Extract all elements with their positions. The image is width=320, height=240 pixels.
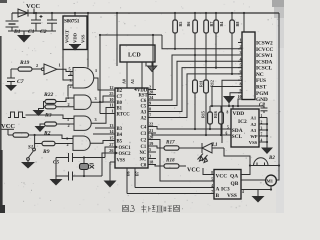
ground under S1 — [21, 162, 35, 169]
wire IC4 GND — [238, 99, 242, 106]
node VCC junction — [33, 12, 35, 14]
svg-text:19: 19 — [149, 141, 153, 146]
svg-text:18: 18 — [149, 160, 153, 165]
svg-text:1: 1 — [59, 63, 61, 68]
wire R2 left — [40, 124, 45, 126]
capacitor C8 — [259, 103, 268, 113]
LCD module — [120, 45, 155, 62]
wire IC2 VDD stub — [232, 106, 234, 109]
svg-text:R17: R17 — [166, 140, 175, 146]
svg-text:ICSW1: ICSW1 — [256, 53, 273, 59]
svg-text:C6: C6 — [141, 99, 147, 104]
wire R3 right to gate G2 — [56, 106, 74, 108]
svg-text:C0: C0 — [141, 164, 147, 169]
crystal Y1 — [80, 156, 95, 177]
svg-text:7: 7 — [240, 75, 242, 80]
wire row2 net — [162, 35, 242, 49]
svg-text:S80751: S80751 — [64, 19, 80, 25]
svg-text:2: 2 — [261, 121, 263, 125]
svg-text:VDD: VDD — [73, 32, 78, 43]
scan right margin — [276, 0, 284, 213]
svg-text:C1: C1 — [141, 145, 147, 150]
svg-text:10: 10 — [238, 94, 242, 99]
svg-text:C7: C7 — [117, 95, 123, 100]
svg-text:22: 22 — [149, 122, 153, 127]
svg-text:2: 2 — [68, 102, 70, 107]
wire row9 PGM — [230, 93, 242, 96]
svg-text:A2: A2 — [251, 122, 257, 127]
resistor R22 — [43, 92, 56, 104]
svg-text:9: 9 — [149, 101, 151, 106]
svg-text:RTCC: RTCC — [117, 113, 131, 118]
IC3 pin numbers — [211, 171, 213, 194]
svg-text:R2: R2 — [43, 131, 51, 137]
wire IC2 ground rail — [266, 118, 268, 148]
svg-text:VCC: VCC — [216, 174, 228, 180]
svg-text:B1: B1 — [13, 29, 21, 35]
svg-text:B: B — [216, 193, 220, 199]
svg-text:4: 4 — [240, 56, 242, 61]
svg-text:1: 1 — [67, 117, 69, 122]
svg-text:5: 5 — [240, 63, 242, 68]
node C2 top — [51, 12, 53, 14]
svg-text:4: 4 — [261, 139, 263, 143]
svg-text:R9: R9 — [42, 149, 50, 155]
svg-text:C4: C4 — [141, 126, 147, 131]
node C1 top — [35, 12, 37, 14]
svg-text:2: 2 — [70, 84, 72, 89]
wire mid bus w2 — [100, 34, 162, 36]
wire chip top feed from bus — [243, 13, 245, 32]
wire gate G1 out to MCU pin B2 — [94, 78, 115, 90]
svg-text:PGM: PGM — [256, 91, 268, 97]
svg-text:IC3: IC3 — [221, 187, 230, 193]
svg-text:B1: B1 — [117, 107, 123, 112]
svg-text:A1: A1 — [130, 79, 135, 84]
wire motor bottom — [270, 186, 272, 190]
inverter U1A — [36, 63, 61, 75]
svg-text:15: 15 — [109, 136, 113, 141]
IC2 right pin numbers — [261, 114, 263, 143]
wire long vertical x100 from mid bus — [99, 35, 101, 114]
svg-text:ICSCL: ICSCL — [256, 66, 272, 72]
svg-text:1: 1 — [67, 95, 69, 100]
wire right edge supply drop to motor — [276, 13, 279, 180]
svg-text:B7: B7 — [135, 171, 140, 176]
signal source square wave — [8, 112, 26, 118]
svg-text:R22: R22 — [43, 92, 54, 98]
capacitor C6 — [52, 172, 102, 185]
svg-text:OSC2: OSC2 — [119, 152, 132, 157]
capacitor C1 — [31, 13, 43, 31]
gate G2 AND — [67, 95, 97, 109]
svg-text:3: 3 — [240, 50, 242, 55]
wire R9 right to gate G4 — [55, 143, 73, 145]
svg-text:A1: A1 — [251, 115, 257, 120]
wire top supply bus — [12, 12, 279, 14]
svg-text:B2: B2 — [268, 156, 275, 161]
diode D1 — [18, 9, 28, 17]
svg-text:3: 3 — [261, 127, 263, 131]
wire R22 right to gate G2 — [56, 98, 74, 102]
svg-text:VSS: VSS — [81, 34, 86, 43]
resistor R19 — [11, 60, 42, 71]
svg-text:R6: R6 — [186, 22, 191, 27]
resistor R16 — [213, 106, 223, 136]
wire row6 net A2 — [148, 74, 242, 118]
resistor R7 — [204, 13, 214, 33]
svg-text:R8: R8 — [235, 22, 240, 27]
motor M1 — [266, 175, 277, 186]
svg-text:8: 8 — [227, 111, 229, 115]
wire inverter out to gate G1 — [57, 69, 73, 71]
svg-text:5: 5 — [149, 147, 151, 152]
wire vertical from bus x117 — [116, 13, 118, 66]
wire B0 feed — [100, 101, 115, 103]
wire C2 net to IC3 pin5 — [148, 140, 214, 182]
node S1 junction — [34, 134, 36, 136]
svg-text:ICSW2: ICSW2 — [256, 41, 273, 47]
battery B1 — [6, 13, 19, 31]
IC4 pin numbers — [238, 38, 242, 100]
wire VCC stub — [33, 9, 35, 14]
resistor R13 — [193, 55, 204, 129]
svg-text:VDD: VDD — [233, 111, 245, 117]
wire IC3 QA to buzzer net — [241, 166, 250, 175]
regulator U S80751 — [63, 16, 87, 50]
scan left dark edge — [0, 36, 2, 213]
svg-text:1: 1 — [66, 136, 68, 141]
svg-text:2: 2 — [67, 142, 69, 147]
wire B7 to IC3 pinA — [135, 187, 214, 189]
resistor R18 — [148, 158, 186, 169]
svg-text:VSS: VSS — [227, 193, 237, 199]
ground below battery rail — [17, 31, 31, 43]
svg-text:21: 21 — [149, 128, 153, 133]
ground under C7 — [5, 82, 17, 92]
wire VDD to mid bus — [148, 35, 153, 90]
svg-text:B0: B0 — [117, 101, 123, 106]
wire IC3 VSS to ground — [241, 190, 258, 197]
svg-text:R5: R5 — [178, 22, 183, 27]
ground left of R3 — [33, 110, 45, 116]
ground LCD — [146, 62, 157, 72]
svg-text:3: 3 — [95, 117, 97, 122]
svg-text:R18: R18 — [166, 158, 175, 164]
svg-text:R19: R19 — [19, 60, 30, 66]
svg-text:R15: R15 — [201, 111, 206, 118]
svg-text:C5: C5 — [141, 105, 147, 110]
svg-text:1: 1 — [261, 114, 263, 118]
svg-text:RST: RST — [139, 94, 149, 99]
svg-text:WP: WP — [250, 134, 258, 139]
svg-text:C1: C1 — [28, 29, 35, 35]
svg-text:R4: R4 — [219, 22, 224, 27]
capacitor C7 — [7, 69, 24, 85]
switch S1 — [27, 144, 36, 163]
svg-text:ICVCC: ICVCC — [256, 47, 273, 53]
wire B6 to IC3 pinB — [127, 193, 214, 195]
svg-text:C7: C7 — [17, 79, 24, 85]
wire battery bottom rail — [8, 30, 56, 32]
svg-text:ICSDA: ICSDA — [256, 59, 272, 65]
resistor R2 — [43, 122, 57, 137]
IC4 pin stubs — [238, 43, 242, 93]
svg-text:2: 2 — [240, 44, 242, 49]
ground left of R2 — [35, 126, 46, 132]
svg-text:L1: L1 — [211, 143, 218, 148]
svg-text:3: 3 — [95, 96, 97, 101]
svg-text:NC: NC — [140, 151, 147, 156]
svg-text:LCD: LCD — [128, 53, 141, 59]
MCU left pin stubs and numbers — [105, 90, 115, 153]
svg-text:12: 12 — [109, 85, 113, 90]
svg-text:1: 1 — [95, 68, 97, 73]
wire OSC1 drop — [105, 147, 108, 158]
svg-text:10: 10 — [109, 97, 113, 102]
LED L1 — [198, 143, 225, 163]
wire S80751 top stub — [74, 13, 76, 16]
svg-text:R16: R16 — [213, 111, 218, 118]
wire B4 feed — [93, 133, 115, 135]
wire row7 FUS — [222, 80, 242, 143]
ground bottom right — [252, 196, 265, 203]
wire junction to gate G4 — [35, 135, 73, 139]
svg-text:4: 4 — [242, 190, 244, 194]
svg-text:6: 6 — [226, 132, 228, 136]
svg-text:IC2: IC2 — [238, 119, 247, 125]
wire gate G3 out to MCU pin B1 — [91, 108, 115, 124]
wire square wave to gate G3 — [26, 115, 75, 119]
svg-text:6: 6 — [240, 69, 242, 74]
resistor R9 — [42, 141, 55, 155]
wire junction down to R9 — [35, 135, 42, 144]
MCU bottom pin B7 — [134, 168, 136, 188]
caption figure 3 — [123, 205, 180, 213]
svg-text:8: 8 — [211, 171, 213, 175]
svg-text:B4: B4 — [117, 133, 123, 138]
gate G3 AND — [67, 116, 97, 130]
svg-text:B6: B6 — [126, 171, 131, 176]
IC2 right pin stubs — [259, 118, 267, 143]
svg-text:SCL: SCL — [232, 134, 243, 140]
resistor R5 — [173, 13, 183, 33]
wire row8 RST — [212, 87, 242, 107]
crystal circuit: C5 — [53, 153, 105, 166]
resistor R4 — [214, 13, 224, 33]
svg-text:3: 3 — [149, 154, 151, 159]
wire LCD data A0 — [126, 62, 128, 88]
MCU right pin stubs and numbers — [148, 90, 156, 165]
wire VCC to IC3 pin8 — [203, 168, 214, 175]
power arrow to rail — [223, 96, 235, 106]
svg-text:A3: A3 — [251, 128, 257, 133]
MCU IC1 — [115, 88, 148, 168]
svg-text:VSS: VSS — [249, 140, 258, 145]
wire row4 net C5 — [148, 61, 242, 105]
resistor R8 — [230, 13, 240, 33]
wire gate G2 out to MCU pin C7 — [91, 96, 115, 102]
svg-text:OSC1: OSC1 — [119, 146, 132, 151]
svg-text:VCC: VCC — [187, 168, 200, 174]
svg-text:11: 11 — [109, 103, 113, 108]
svg-text:B3: B3 — [117, 127, 123, 132]
resistor R14 — [204, 61, 215, 135]
svg-text:A2: A2 — [141, 117, 147, 122]
svg-text:VCC: VCC — [26, 3, 40, 10]
resistor R3 — [44, 105, 56, 119]
svg-text:QA: QA — [230, 174, 238, 180]
wire gate G1 lower input — [68, 84, 73, 86]
svg-text:1: 1 — [111, 109, 113, 114]
svg-text:QB: QB — [231, 181, 239, 187]
svg-text:NC: NC — [140, 158, 147, 163]
svg-text:25: 25 — [109, 91, 113, 96]
wire RTCC feed — [100, 113, 115, 115]
wire bus drop to gate G1 input — [63, 35, 73, 80]
svg-text:2: 2 — [36, 63, 38, 68]
wire LED net down to buzzer rail — [224, 148, 250, 166]
svg-text:7: 7 — [261, 133, 263, 137]
gate G4 AND — [66, 136, 90, 150]
svg-text:B5: B5 — [117, 140, 123, 145]
wire gate G4 out to MCU pin B5 — [90, 141, 115, 144]
svg-text:R11: R11 — [199, 80, 204, 87]
wire row5 net A3 — [148, 68, 242, 112]
wire IC3 QB to motor — [241, 179, 266, 181]
wire R2 right to gate G3 — [57, 123, 75, 125]
gate G1 AND — [68, 67, 97, 90]
svg-text:A0: A0 — [122, 79, 127, 84]
wire SCL bus — [148, 133, 231, 135]
wire OSC left rail — [55, 158, 57, 180]
svg-text:5: 5 — [227, 126, 229, 130]
ground under S80751 — [69, 45, 81, 51]
MCU right pin names — [134, 88, 148, 169]
svg-text:8: 8 — [240, 82, 242, 87]
node S80751 top — [74, 12, 76, 14]
svg-text:VSS: VSS — [117, 159, 126, 164]
svg-text:C2: C2 — [141, 139, 147, 144]
node bus taps — [174, 12, 176, 14]
wire B3 feed — [95, 127, 115, 129]
svg-text:4: 4 — [211, 184, 213, 188]
svg-text:FUS: FUS — [256, 78, 266, 84]
IC4 programming chip — [242, 32, 255, 100]
svg-text:C3: C3 — [141, 132, 147, 137]
svg-text:1: 1 — [240, 38, 242, 43]
wire SDA bus — [148, 127, 231, 130]
ground OSC rail — [50, 179, 63, 186]
svg-text:C2: C2 — [40, 29, 47, 35]
capacitor C2 — [47, 13, 57, 31]
svg-text:5: 5 — [211, 178, 213, 182]
wire VSS drop — [109, 162, 111, 181]
IC4 net labels — [256, 41, 273, 104]
EEPROM IC2 — [231, 109, 259, 147]
svg-text:7: 7 — [211, 190, 213, 194]
svg-text:28: 28 — [149, 90, 153, 95]
svg-text:8: 8 — [149, 107, 151, 112]
ground MCU VSS — [104, 181, 117, 188]
buzzer B2 dome — [254, 156, 276, 166]
resistor R6 — [186, 13, 197, 33]
wire row3 net C6 — [148, 55, 242, 100]
MCU bottom pin B6 — [126, 168, 128, 194]
resistor R17 — [148, 140, 202, 151]
svg-text:M1: M1 — [267, 179, 273, 184]
svg-text:RST: RST — [256, 85, 267, 91]
MCU left pin names — [116, 89, 132, 164]
wire LCD data A1 — [141, 62, 143, 88]
wire vertical from bus x88 — [87, 13, 89, 68]
svg-text:NC: NC — [256, 72, 264, 78]
wire OSC2 drop — [102, 153, 105, 176]
svg-text:3: 3 — [70, 78, 72, 83]
wire buzzer rail — [250, 165, 279, 167]
resistor R1 pullup — [8, 130, 35, 138]
svg-text:SDA: SDA — [232, 128, 243, 134]
ground IC2 — [261, 148, 273, 155]
svg-text:9: 9 — [240, 88, 242, 93]
svg-text:VOUT: VOUT — [65, 30, 70, 43]
svg-text:R12: R12 — [210, 80, 215, 87]
resistor R15 — [201, 106, 213, 130]
svg-text:A3: A3 — [141, 111, 147, 116]
svg-text:2: 2 — [68, 123, 70, 128]
wire R22 R3 left tie — [39, 102, 46, 111]
svg-text:A: A — [216, 187, 220, 193]
svg-text:13: 13 — [109, 123, 113, 128]
wire VDD rail of IC2 — [210, 105, 264, 107]
paper scan noise — [3, 1, 281, 211]
svg-text:B2: B2 — [117, 89, 123, 94]
motor driver IC3 — [214, 170, 241, 200]
